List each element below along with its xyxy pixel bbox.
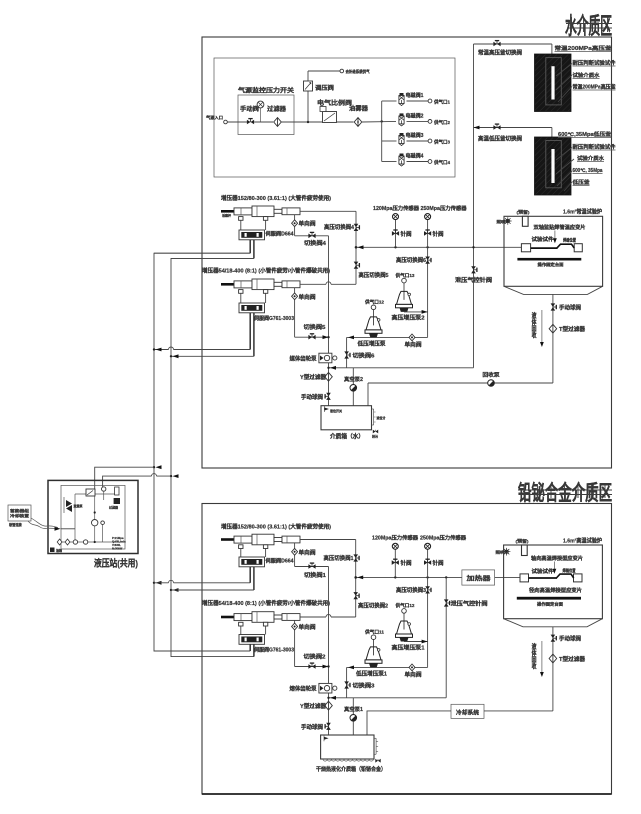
solenoid valve 1 [382, 100, 397, 102]
svg-text:液位开关: 液位开关 [330, 408, 342, 413]
svg-text:过滤器: 过滤器 [267, 105, 287, 113]
hydraulic station inner box [61, 485, 125, 549]
vessel V2 600C 35MPa autoclave [535, 137, 572, 195]
check valve B2 [294, 288, 296, 338]
filter F1 [274, 118, 282, 127]
solenoid valve 4 [382, 161, 397, 163]
check valve LP discharge [409, 334, 415, 341]
junction arrows on risers [156, 348, 162, 352]
svg-text:照明: 照明 [496, 550, 506, 555]
media gear pump [319, 353, 332, 363]
wire station output to riser T with hop [103, 474, 171, 490]
T filter [549, 324, 557, 333]
lead-bismuth zone frame [202, 504, 612, 795]
liquid recovery arrow [541, 310, 543, 344]
intensifier B3 body [234, 536, 252, 543]
solenoid valve 2 [399, 113, 404, 126]
manual ball valve drain [551, 303, 557, 310]
svg-text:铅铋合金介质区: 铅铋合金介质区 [518, 481, 612, 505]
wire vessel feed riser [473, 44, 475, 368]
level gauge 2 [374, 737, 376, 739]
manual ball valve drain 2 [551, 635, 557, 642]
wire to switching valve 4 [295, 235, 329, 237]
wire to switching valve 2 [295, 666, 329, 668]
relief pneumatic needle valve [471, 266, 477, 273]
svg-text:供气口12: 供气口12 [394, 602, 415, 609]
svg-text:600℃,35Mpa低压釜: 600℃,35Mpa低压釜 [558, 130, 612, 138]
intensifier B2 ports [239, 290, 243, 294]
svg-text:单向阀: 单向阀 [405, 671, 423, 679]
switching valve 4 [308, 232, 315, 238]
svg-text:供气口3: 供气口3 [433, 139, 450, 146]
svg-text:切换阀4: 切换阀4 [304, 239, 326, 247]
intensifier B2 body [234, 281, 252, 288]
svg-text:冷却装置: 冷却装置 [10, 513, 30, 518]
svg-text:泄压气控针阀: 泄压气控针阀 [455, 276, 493, 284]
intensifier B1 ports [239, 217, 243, 221]
bottom manifold [59, 541, 121, 543]
wire drain to cooling [484, 710, 553, 712]
wire HP main line [356, 246, 521, 248]
svg-text:低压釜: 低压釜 [571, 178, 590, 186]
level switch flag 2 [323, 735, 325, 741]
servo valve D664 [239, 230, 265, 240]
svg-text:电磁阀4: 电磁阀4 [406, 153, 424, 160]
svg-text:1.6m³常温试验炉: 1.6m³常温试验炉 [563, 208, 603, 216]
HP switching valve 4 [354, 224, 360, 231]
specimen test piece 2 [520, 574, 529, 582]
svg-text:干烧热液化介质箱（铅铋合金）: 干烧热液化介质箱（铅铋合金） [316, 765, 386, 773]
valve RT high pressure autoclave switch [493, 41, 500, 47]
reserved port [522, 216, 528, 226]
LP booster pump 1 [373, 640, 375, 648]
wire servo supply pipes [249, 240, 251, 253]
wire [281, 121, 322, 123]
HP switching valve 6 [425, 257, 431, 264]
svg-text:T型过滤器: T型过滤器 [559, 655, 586, 663]
node junction [307, 121, 309, 123]
check valve B1 [294, 215, 296, 236]
relief pneumatic needle valve 2 [445, 577, 447, 697]
wire [337, 121, 354, 123]
svg-text:水介质区: 水介质区 [565, 13, 612, 39]
variable pump [66, 500, 72, 507]
intensifier B1 piston rod [221, 210, 234, 213]
check valve B4 [294, 620, 296, 666]
wire LP pump suction 2 [347, 666, 428, 668]
svg-text:加热器: 加热器 [465, 575, 492, 583]
svg-text:真空泵1: 真空泵1 [344, 705, 363, 713]
svg-text:切换阀2: 切换阀2 [304, 653, 326, 661]
svg-text:常温200MPa高压釜: 常温200MPa高压釜 [573, 83, 617, 91]
svg-text:供气口13: 供气口13 [394, 272, 415, 279]
svg-text:针阀: 针阀 [401, 230, 413, 238]
wire to makeup system [308, 70, 340, 72]
switching valve 3 [344, 681, 350, 688]
electric proportional valve [323, 112, 337, 123]
intensifier B1 body [234, 208, 252, 215]
svg-text:软管连接: 软管连接 [9, 522, 23, 527]
gauge [92, 520, 98, 526]
lamp [506, 219, 509, 222]
medium tank (water) [321, 406, 372, 430]
svg-text:Y型过滤器: Y型过滤器 [300, 373, 327, 381]
wire servo supply pipes [249, 313, 251, 350]
svg-text:单向阀: 单向阀 [299, 293, 317, 301]
svg-text:伺服阀D664: 伺服阀D664 [264, 557, 293, 565]
svg-text:低压增压泵: 低压增压泵 [356, 340, 386, 348]
svg-text:冷却系统: 冷却系统 [456, 709, 479, 717]
svg-text:过滤器: 过滤器 [109, 505, 119, 510]
recovery pump [488, 380, 496, 388]
servo valve D664 (B3) [239, 557, 265, 567]
wire servo pipes B4 [249, 644, 251, 651]
svg-text:单向阀: 单向阀 [405, 341, 423, 349]
svg-text:针阀: 针阀 [401, 559, 413, 567]
needle valve [392, 559, 399, 565]
svg-text:高压增压泵1: 高压增压泵1 [392, 644, 425, 652]
svg-text:媒体齿轮泵: 媒体齿轮泵 [290, 355, 318, 363]
pressure switch box [238, 95, 294, 135]
svg-text:蓄能器组: 蓄能器组 [10, 508, 30, 513]
svg-text:操作固定台面: 操作固定台面 [537, 601, 563, 607]
wire LP pump suction [347, 336, 428, 338]
svg-text:供气口12: 供气口12 [364, 299, 385, 306]
svg-text:1.6m³高温试验炉: 1.6m³高温试验炉 [563, 536, 603, 544]
check valve B3 [294, 543, 296, 567]
wire station output to riser P [95, 467, 154, 490]
Y filter [325, 372, 333, 381]
svg-text:电磁阀3: 电磁阀3 [406, 132, 424, 139]
svg-text:(预留): (预留) [516, 537, 530, 543]
wire to low pressure autoclave [474, 127, 552, 129]
svg-text:常温高压釜切换阀: 常温高压釜切换阀 [478, 49, 523, 57]
svg-text:切换阀3: 切换阀3 [353, 682, 375, 690]
specimen test piece [521, 244, 530, 252]
pressure regulating valve [304, 81, 313, 91]
svg-text:高压增压泵2: 高压增压泵2 [392, 314, 425, 322]
wire main drop 2 [328, 567, 330, 736]
svg-text:切换阀6: 切换阀6 [353, 352, 375, 360]
intensifier B4 body [234, 614, 252, 621]
air control panel frame [214, 58, 455, 177]
intensifier B3 ports [239, 545, 243, 549]
drain valve [375, 430, 377, 432]
switching valve 5 [308, 334, 315, 340]
wire main drop line [328, 236, 330, 406]
svg-text:电磁阀2: 电磁阀2 [406, 112, 424, 119]
svg-text:手动球阀: 手动球阀 [301, 723, 324, 731]
leader lines V2 [556, 148, 572, 161]
svg-text:电气比例阀: 电气比例阀 [317, 99, 352, 107]
HP switching valve 2 [353, 592, 359, 599]
level switch flag [323, 406, 325, 412]
svg-text:供气口1: 供气口1 [433, 99, 450, 106]
manual ball valve 2 [325, 723, 331, 730]
wire HP pump branch 2 [427, 577, 429, 667]
svg-text:(预留): (预留) [517, 209, 531, 215]
svg-text:600℃, 35Mpa: 600℃, 35Mpa [573, 167, 603, 174]
svg-text:操作固定台面: 操作固定台面 [538, 261, 564, 267]
wire to switching valve 5 [295, 336, 329, 338]
wire recovery line [368, 382, 553, 384]
pointer arrow [554, 231, 556, 241]
svg-text:高压切换阀5: 高压切换阀5 [359, 271, 389, 279]
motor pump unit [86, 489, 95, 496]
manual valve [247, 119, 254, 125]
melt gear pump [319, 683, 332, 693]
svg-text:泄压气控针阀: 泄压气控针阀 [451, 600, 489, 608]
intensifier B3 piston rod [221, 538, 234, 541]
pressure sensor 250MPa (2) [427, 550, 429, 578]
wire servo pipes B3 [249, 567, 251, 583]
svg-text:试验介质水: 试验介质水 [577, 154, 605, 162]
needle valve [392, 230, 399, 236]
tank heater coils [323, 759, 373, 761]
wire B4 output with hop [300, 615, 356, 618]
valve HT low pressure autoclave switch [493, 124, 500, 130]
intensifier B4 piston rod [221, 616, 234, 619]
hoses [28, 521, 56, 529]
svg-text:液体回收: 液体回收 [531, 311, 536, 340]
svg-text:排污: 排污 [372, 434, 378, 439]
vacuum pump 2 [352, 368, 354, 406]
svg-text:轴向高温焊接型应变片: 轴向高温焊接型应变片 [531, 554, 583, 562]
pressure sensor 120MPa (2) [394, 550, 396, 578]
svg-text:液压站(共用): 液压站(共用) [94, 558, 138, 570]
HP switching valve 1 [353, 554, 359, 561]
svg-text:250Mpa压力传感器: 250Mpa压力传感器 [421, 204, 468, 212]
svg-text:径向高温焊接型应变片: 径向高温焊接型应变片 [529, 586, 582, 594]
needle valve [424, 559, 431, 565]
pressure sensor 250MPa [427, 220, 429, 248]
svg-text:伺服阀D664: 伺服阀D664 [264, 230, 293, 238]
svg-text:高压切换阀6: 高压切换阀6 [396, 256, 426, 264]
svg-text:照明: 照明 [497, 219, 507, 224]
station internals [74, 494, 76, 542]
Y filter 2 [325, 701, 333, 710]
wire to switching valve 1 [295, 566, 329, 568]
svg-text:增压器54/18-400 (8:1) (小管件疲劳/小管件爆: 增压器54/18-400 (8:1) (小管件疲劳/小管件爆破共用) [202, 599, 330, 607]
wire hydraulic supply riser P [154, 253, 250, 651]
wire to high pressure autoclave [474, 43, 552, 45]
check valve LP discharge 2 [409, 664, 415, 671]
manual ball valve [325, 393, 331, 400]
svg-text:油箱: 油箱 [56, 548, 62, 553]
wire HP main line 2 [356, 576, 462, 578]
liquid recovery arrow 2 [541, 641, 543, 674]
svg-text:单向阀: 单向阀 [299, 220, 317, 228]
svg-text:单向阀: 单向阀 [299, 623, 317, 631]
wire cooling to tank [367, 711, 451, 735]
wire B1 output [300, 210, 356, 212]
svg-text:供气口4: 供气口4 [433, 159, 450, 166]
svg-text:高压切换阀1: 高压切换阀1 [324, 554, 354, 562]
accumulator unit box [8, 505, 31, 521]
svg-text:120Mpa压力传感器: 120Mpa压力传感器 [372, 534, 419, 542]
level gauge [372, 408, 374, 410]
LP booster pump [373, 310, 375, 318]
svg-text:手动阀: 手动阀 [240, 105, 259, 113]
svg-text:试验试件: 试验试件 [532, 235, 555, 243]
svg-text:Y型过滤器: Y型过滤器 [300, 702, 327, 710]
wire B3 output [300, 539, 356, 541]
svg-text:气源入口: 气源入口 [205, 114, 223, 120]
svg-text:熔体齿轮泵: 熔体齿轮泵 [290, 685, 318, 693]
svg-text:切换阀5: 切换阀5 [304, 323, 326, 331]
svg-text:活塞杆: 活塞杆 [222, 213, 231, 218]
wire regulator branch [307, 91, 309, 122]
reserved port 2 [522, 545, 528, 556]
solenoid valve 3 [382, 140, 397, 142]
melt tank [321, 735, 374, 759]
svg-text:高压切换阀3: 高压切换阀3 [396, 586, 426, 594]
wire furnace drain [552, 294, 554, 383]
switching valve 2 [308, 663, 315, 669]
svg-text:双轴监贴焊管温应变片: 双轴监贴焊管温应变片 [534, 223, 586, 231]
svg-text:手动球阀: 手动球阀 [559, 304, 582, 312]
svg-text:焊缝位置: 焊缝位置 [563, 237, 576, 243]
switching valve 1 [308, 563, 315, 569]
svg-text:回收泵: 回收泵 [483, 371, 501, 379]
intensifier B2 piston rod [221, 283, 234, 286]
svg-text:T型过滤器: T型过滤器 [559, 325, 586, 333]
svg-text:焊缝位置: 焊缝位置 [563, 567, 576, 573]
HP switching valve 3 [425, 586, 431, 593]
svg-text:增压器54/18-400 (8:1) (小管件疲劳/小管件爆: 增压器54/18-400 (8:1) (小管件疲劳/小管件爆破共用) [202, 267, 330, 275]
wire output riser [355, 211, 357, 284]
svg-text:手动球阀: 手动球阀 [301, 393, 324, 401]
svg-text:真空泵2: 真空泵2 [344, 375, 363, 383]
svg-text:250Mpa压力传感器: 250Mpa压力传感器 [420, 534, 467, 542]
svg-text:试验试件: 试验试件 [532, 567, 555, 575]
svg-text:N:30kW: N:30kW [112, 547, 123, 551]
wire HP pump discharge [404, 311, 428, 313]
wire [254, 121, 273, 123]
svg-text:介质箱（水）: 介质箱（水） [329, 433, 364, 441]
pressure sensor 120MPa [395, 220, 397, 248]
air inlet port [224, 120, 228, 124]
funnel [504, 286, 603, 294]
svg-text:油雾器: 油雾器 [349, 105, 369, 113]
svg-text:气源监控压力开关: 气源监控压力开关 [237, 87, 294, 95]
svg-text:切换阀1: 切换阀1 [304, 571, 326, 579]
svg-text:伺服阀G761-3003: 伺服阀G761-3003 [253, 314, 294, 322]
servo valve G761-3003 (B4) [239, 635, 265, 645]
lamp 2 [505, 550, 508, 553]
cooling system box [451, 704, 484, 718]
svg-text:高压切换阀2: 高压切换阀2 [358, 602, 388, 610]
junction [94, 511, 96, 513]
svg-text:液体回收: 液体回收 [531, 642, 536, 671]
svg-text:液位计: 液位计 [377, 415, 386, 420]
wire HP pump branch [427, 247, 429, 337]
svg-text:高温低压釜切换阀: 高温低压釜切换阀 [478, 135, 523, 143]
svg-text:低压增压泵1: 低压增压泵1 [355, 670, 387, 678]
wire relief line to tank [329, 367, 474, 369]
leader lines V1 [556, 64, 572, 77]
switching valve 6 [344, 351, 350, 358]
svg-text:耐压判断试验试件: 耐压判断试验试件 [573, 143, 617, 151]
wire furnace drain 2 [552, 627, 554, 711]
wire B3 output riser [355, 540, 357, 618]
funnel 2 [504, 619, 603, 627]
svg-text:高压切换阀4: 高压切换阀4 [324, 223, 354, 231]
HP booster pump 1 [403, 613, 405, 622]
wire relief line 2 [329, 697, 447, 699]
furnace F1 room-temperature test furnace [504, 216, 603, 286]
T filter 2 [549, 654, 557, 663]
servo valve G761-3003 [239, 303, 265, 313]
svg-text:供气口2: 供气口2 [433, 119, 450, 126]
work table [517, 258, 581, 261]
furnace F2 high temperature test furnace [504, 545, 603, 619]
svg-text:去补给系统供气: 去补给系统供气 [346, 68, 370, 74]
water zone frame [202, 37, 612, 468]
svg-text:针阀: 针阀 [433, 559, 445, 567]
HP booster pump 2 [403, 283, 405, 292]
vessel V1 RT 200MPa autoclave [535, 54, 572, 112]
svg-text:针阀: 针阀 [433, 230, 445, 238]
svg-text:耐压判断试验试件: 耐压判断试验试件 [573, 59, 617, 67]
svg-text:120Mpa压力传感器: 120Mpa压力传感器 [373, 204, 420, 212]
hydraulic station outer box [48, 480, 138, 553]
svg-text:手动球阀: 手动球阀 [559, 635, 582, 643]
wire suction drop 2 [346, 667, 348, 697]
svg-text:伺服阀G761-3003: 伺服阀G761-3003 [253, 646, 294, 654]
work table 2 [517, 597, 581, 600]
oil tank mark [50, 548, 55, 553]
wire to solenoid header [362, 120, 396, 123]
HP switching valve 5 [354, 262, 360, 269]
vacuum pump 1 [352, 698, 354, 735]
oil mister [354, 118, 362, 127]
svg-text:单向阀: 单向阀 [299, 548, 317, 556]
svg-text:常温200MPa高压釜: 常温200MPa高压釜 [555, 44, 613, 52]
solenoid header [381, 101, 383, 162]
wire air main [227, 121, 247, 123]
needle valve [424, 230, 431, 236]
wire hydraulic supply riser T [171, 258, 254, 656]
svg-text:试验介质水: 试验介质水 [573, 71, 601, 79]
svg-text:供气口11: 供气口11 [364, 629, 385, 636]
intensifier B4 ports [239, 622, 243, 626]
svg-text:增压器152/80-300 (3.61:1) (大管件疲劳使: 增压器152/80-300 (3.61:1) (大管件疲劳使用) [221, 523, 331, 531]
drain valve 2 [377, 759, 379, 761]
pressure gauge [260, 108, 262, 122]
svg-text:电磁阀1: 电磁阀1 [406, 92, 424, 99]
wire suction drop to relief line [346, 337, 348, 367]
heater [462, 570, 495, 585]
svg-text:调压阀: 调压阀 [315, 84, 334, 92]
wire B2 output with hop over main drop [300, 282, 356, 285]
svg-text:增压器152/80-300 (3.61:1) (大管件疲劳使: 增压器152/80-300 (3.61:1) (大管件疲劳使用) [221, 194, 331, 202]
svg-text:变量泵: 变量泵 [74, 503, 83, 508]
